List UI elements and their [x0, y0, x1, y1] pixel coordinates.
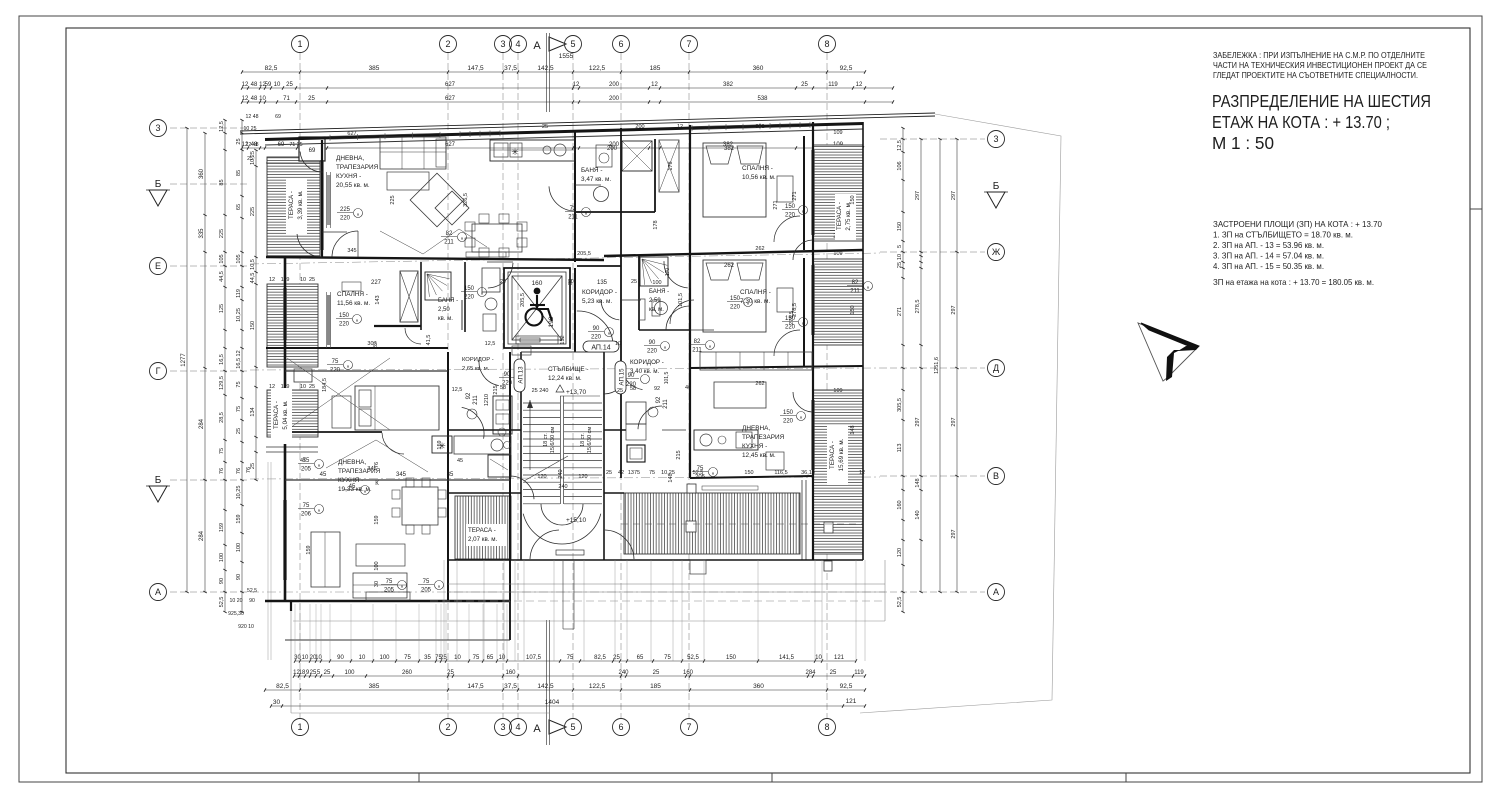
- svg-text:КУХНЯ -: КУХНЯ -: [336, 173, 361, 180]
- svg-text:Г: Г: [156, 366, 161, 376]
- svg-text:16,5 12: 16,5 12: [236, 350, 242, 368]
- svg-text:5: 5: [570, 39, 575, 49]
- svg-text:220: 220: [330, 368, 341, 374]
- svg-text:75: 75: [423, 579, 430, 585]
- svg-text:200: 200: [607, 146, 618, 152]
- svg-text:+15,10: +15,10: [566, 517, 586, 524]
- svg-text:в: в: [347, 363, 349, 368]
- svg-text:211: 211: [473, 395, 479, 405]
- svg-text:75: 75: [236, 406, 242, 412]
- svg-text:120: 120: [897, 548, 903, 557]
- svg-text:25: 25: [653, 670, 660, 676]
- svg-text:200: 200: [609, 96, 620, 102]
- svg-text:АП.14: АП.14: [591, 345, 610, 352]
- svg-text:1555: 1555: [559, 53, 574, 60]
- svg-text:178: 178: [668, 161, 674, 170]
- svg-text:107,5: 107,5: [526, 655, 542, 661]
- svg-text:122,5: 122,5: [589, 683, 606, 690]
- svg-text:2: 2: [445, 722, 450, 732]
- svg-text:Б: Б: [155, 179, 162, 190]
- svg-text:382: 382: [724, 146, 735, 152]
- svg-text:75: 75: [697, 466, 704, 472]
- svg-text:6: 6: [618, 722, 623, 732]
- svg-text:220: 220: [340, 216, 351, 222]
- svg-text:65: 65: [637, 655, 644, 661]
- svg-text:120: 120: [578, 474, 587, 480]
- svg-text:75: 75: [473, 655, 480, 661]
- svg-text:52,5: 52,5: [247, 588, 257, 594]
- svg-text:925,30: 925,30: [228, 611, 244, 617]
- svg-text:КОРИДОР -: КОРИДОР -: [462, 357, 494, 363]
- svg-text:8: 8: [824, 722, 829, 732]
- svg-text:305,5: 305,5: [897, 398, 903, 412]
- svg-text:1210: 1210: [484, 394, 490, 406]
- svg-text:150: 150: [850, 195, 856, 204]
- svg-text:205,5: 205,5: [577, 251, 591, 257]
- svg-text:185: 185: [650, 65, 661, 72]
- svg-text:12: 12: [242, 96, 249, 102]
- svg-text:240: 240: [558, 484, 567, 490]
- svg-text:10 20: 10 20: [230, 598, 243, 604]
- svg-text:150: 150: [783, 410, 794, 416]
- svg-text:ДНЕВНА,: ДНЕВНА,: [338, 459, 366, 466]
- svg-text:25 240: 25 240: [532, 388, 549, 394]
- svg-text:271: 271: [792, 191, 798, 200]
- svg-text:75: 75: [332, 359, 339, 365]
- svg-text:385: 385: [369, 65, 380, 72]
- svg-text:360: 360: [753, 683, 764, 690]
- svg-text:85: 85: [236, 170, 242, 176]
- svg-text:3. ЗП на АП. - 14 = 57.04 кв.: 3. ЗП на АП. - 14 = 57.04 кв. м.: [1213, 252, 1324, 261]
- svg-text:20,55 кв. м.: 20,55 кв. м.: [336, 182, 370, 189]
- svg-text:12: 12: [856, 82, 863, 88]
- svg-text:35: 35: [424, 655, 431, 661]
- svg-text:в: в: [356, 317, 358, 322]
- svg-text:Д: Д: [993, 363, 999, 373]
- svg-text:1277: 1277: [181, 353, 187, 367]
- svg-text:48: 48: [251, 96, 258, 102]
- svg-text:205: 205: [301, 467, 312, 473]
- svg-text:10,25: 10,25: [236, 486, 242, 500]
- svg-text:200: 200: [635, 124, 644, 130]
- svg-text:5: 5: [897, 245, 903, 248]
- svg-text:7,30 кв. м.: 7,30 кв. м.: [740, 298, 770, 305]
- svg-text:10: 10: [259, 96, 266, 102]
- svg-text:БАНЯ -: БАНЯ -: [649, 289, 669, 295]
- svg-text:Е: Е: [155, 261, 161, 271]
- svg-text:10: 10: [359, 655, 366, 661]
- svg-text:25: 25: [236, 138, 242, 144]
- svg-text:25: 25: [236, 428, 242, 434]
- svg-text:65: 65: [487, 655, 494, 661]
- svg-text:227: 227: [371, 280, 382, 286]
- svg-text:159: 159: [374, 515, 380, 524]
- svg-text:152: 152: [560, 335, 566, 344]
- svg-text:15,69 кв. м.: 15,69 кв. м.: [838, 438, 845, 471]
- svg-text:37,5: 37,5: [504, 683, 517, 690]
- svg-text:75: 75: [386, 579, 393, 585]
- svg-text:ТЕРАСА -: ТЕРАСА -: [829, 441, 836, 469]
- svg-text:15,6/30 см: 15,6/30 см: [550, 427, 556, 454]
- svg-text:627: 627: [347, 131, 356, 137]
- svg-text:2,59: 2,59: [649, 298, 661, 304]
- svg-text:76: 76: [219, 468, 225, 474]
- svg-text:3,47 кв. м.: 3,47 кв. м.: [581, 176, 611, 183]
- svg-text:6: 6: [618, 39, 623, 49]
- svg-text:12,5: 12,5: [897, 140, 903, 151]
- svg-text:18 ст.: 18 ст.: [543, 433, 549, 447]
- svg-text:211: 211: [850, 289, 860, 295]
- svg-text:75: 75: [404, 655, 411, 661]
- svg-text:10: 10: [274, 82, 281, 88]
- svg-text:85: 85: [219, 179, 225, 185]
- svg-text:25: 25: [309, 277, 315, 283]
- svg-text:262: 262: [755, 381, 764, 387]
- svg-text:262: 262: [724, 263, 735, 269]
- svg-text:69: 69: [309, 148, 316, 154]
- svg-text:в: в: [712, 470, 714, 475]
- svg-text:220: 220: [591, 335, 602, 341]
- svg-text:52,5: 52,5: [219, 597, 225, 608]
- svg-text:А: А: [533, 40, 541, 52]
- svg-text:82: 82: [446, 231, 453, 237]
- svg-text:147,5: 147,5: [467, 65, 484, 72]
- svg-text:360: 360: [199, 168, 205, 179]
- svg-text:307: 307: [367, 341, 376, 347]
- svg-text:271: 271: [773, 200, 779, 209]
- svg-text:1251,6: 1251,6: [934, 357, 940, 374]
- svg-text:ДНЕВНА,: ДНЕВНА,: [336, 155, 364, 162]
- svg-text:159: 159: [236, 514, 242, 523]
- svg-text:КУХНЯ -: КУХНЯ -: [338, 477, 363, 484]
- svg-text:100: 100: [344, 670, 355, 676]
- svg-text:10: 10: [454, 655, 461, 661]
- svg-text:345: 345: [367, 466, 376, 472]
- svg-text:30: 30: [374, 581, 380, 587]
- svg-text:75: 75: [664, 655, 671, 661]
- svg-text:КОРИДОР -: КОРИДОР -: [582, 289, 617, 296]
- svg-text:ЗАБЕЛЕЖКА : ПРИ ИЗПЪЛНЕНИЕ НА: ЗАБЕЛЕЖКА : ПРИ ИЗПЪЛНЕНИЕ НА С.М.Р. ПО …: [1213, 51, 1425, 60]
- svg-text:25: 25: [617, 388, 623, 394]
- svg-text:25: 25: [324, 670, 331, 676]
- svg-text:125: 125: [219, 304, 225, 313]
- svg-text:10: 10: [302, 655, 309, 661]
- svg-text:538: 538: [757, 96, 768, 102]
- svg-text:106: 106: [897, 161, 903, 170]
- svg-text:СПАЛНЯ -: СПАЛНЯ -: [337, 291, 368, 298]
- svg-text:4: 4: [515, 39, 520, 49]
- svg-text:10: 10: [815, 655, 822, 661]
- svg-text:12 48: 12 48: [246, 142, 259, 148]
- svg-text:48: 48: [251, 82, 258, 88]
- svg-text:12,45 кв. м.: 12,45 кв. м.: [742, 452, 776, 459]
- svg-text:А: А: [993, 587, 999, 597]
- svg-text:ТЕРАСА -: ТЕРАСА -: [288, 191, 295, 219]
- svg-text:160: 160: [505, 670, 516, 676]
- svg-text:2,07 кв. м.: 2,07 кв. м.: [468, 536, 497, 543]
- svg-text:147,5: 147,5: [467, 683, 484, 690]
- svg-text:148: 148: [668, 473, 674, 482]
- svg-text:30: 30: [273, 699, 281, 706]
- svg-text:2. ЗП на АП. - 13 = 53.96 кв.: 2. ЗП на АП. - 13 = 53.96 кв. м.: [1213, 241, 1324, 250]
- svg-text:185: 185: [650, 683, 661, 690]
- svg-text:206: 206: [301, 512, 312, 518]
- svg-text:135: 135: [597, 280, 608, 286]
- svg-text:90: 90: [337, 655, 344, 661]
- svg-text:в: в: [401, 583, 403, 588]
- svg-text:25: 25: [308, 96, 315, 102]
- svg-text:225: 225: [390, 195, 396, 204]
- svg-text:12: 12: [269, 277, 275, 283]
- svg-text:205: 205: [421, 588, 432, 594]
- svg-text:25: 25: [631, 279, 637, 285]
- svg-text:в: в: [481, 290, 483, 295]
- svg-text:3,39 кв. м.: 3,39 кв. м.: [297, 190, 304, 219]
- svg-text:25: 25: [286, 82, 293, 88]
- svg-text:52,5: 52,5: [687, 655, 699, 661]
- svg-text:28,5: 28,5: [219, 412, 225, 423]
- svg-text:297: 297: [915, 417, 921, 426]
- svg-text:101,5: 101,5: [664, 372, 670, 385]
- svg-text:46: 46: [685, 385, 691, 391]
- svg-text:211: 211: [663, 399, 669, 409]
- svg-text:11,56 кв. м.: 11,56 кв. м.: [337, 300, 370, 307]
- svg-text:ТРАПЕЗАРИЯ: ТРАПЕЗАРИЯ: [336, 164, 379, 171]
- svg-text:92,5: 92,5: [840, 683, 853, 690]
- svg-text:в: в: [867, 284, 869, 289]
- svg-text:627: 627: [445, 96, 456, 102]
- svg-text:92: 92: [466, 392, 472, 399]
- svg-text:220: 220: [339, 322, 350, 328]
- svg-text:121: 121: [834, 655, 845, 661]
- svg-text:7: 7: [686, 722, 691, 732]
- svg-text:в: в: [318, 507, 320, 512]
- svg-text:113: 113: [897, 444, 903, 453]
- svg-text:140: 140: [915, 510, 921, 519]
- svg-text:АП.13: АП.13: [518, 366, 525, 384]
- svg-text:БАНЯ -: БАНЯ -: [581, 167, 602, 174]
- svg-text:2,50: 2,50: [438, 307, 450, 313]
- svg-text:3: 3: [993, 134, 998, 144]
- svg-text:1: 1: [297, 39, 302, 49]
- svg-text:184,5: 184,5: [322, 378, 328, 392]
- svg-text:150: 150: [785, 204, 796, 210]
- svg-text:30: 30: [294, 655, 301, 661]
- svg-text:119: 119: [828, 82, 838, 88]
- svg-text:240: 240: [558, 469, 564, 478]
- svg-text:76: 76: [236, 468, 242, 474]
- svg-text:К: К: [375, 481, 379, 487]
- svg-text:10: 10: [499, 655, 506, 661]
- svg-text:82,5: 82,5: [594, 655, 606, 661]
- svg-text:АП.15: АП.15: [619, 368, 626, 386]
- svg-text:в: в: [438, 583, 440, 588]
- svg-text:100: 100: [652, 280, 661, 286]
- svg-text:90: 90: [504, 372, 511, 378]
- svg-text:150: 150: [897, 222, 903, 231]
- svg-text:211: 211: [568, 215, 578, 221]
- svg-text:326,5: 326,5: [463, 193, 469, 207]
- svg-text:в: в: [585, 210, 587, 215]
- svg-text:5: 5: [570, 722, 575, 732]
- svg-text:178: 178: [653, 220, 659, 229]
- svg-text:✳: ✳: [511, 147, 519, 157]
- svg-text:10,25: 10,25: [236, 308, 242, 322]
- svg-text:12 48: 12 48: [246, 114, 259, 120]
- svg-text:10 25: 10 25: [244, 126, 257, 132]
- svg-text:75: 75: [567, 655, 574, 661]
- svg-text:+13,70: +13,70: [566, 389, 586, 396]
- svg-text:3: 3: [500, 39, 505, 49]
- svg-text:1404: 1404: [545, 699, 560, 706]
- svg-text:10: 10: [897, 254, 903, 260]
- svg-text:262: 262: [755, 246, 764, 252]
- svg-text:5,04 кв. м.: 5,04 кв. м.: [282, 400, 289, 429]
- svg-text:205: 205: [695, 475, 706, 481]
- svg-text:109: 109: [833, 388, 842, 394]
- svg-text:92,5: 92,5: [840, 65, 853, 72]
- svg-text:Б: Б: [993, 181, 1000, 192]
- svg-text:119: 119: [854, 670, 864, 676]
- svg-text:297: 297: [951, 529, 957, 538]
- svg-text:4: 4: [515, 722, 520, 732]
- svg-text:284: 284: [199, 530, 205, 541]
- svg-text:25: 25: [606, 470, 612, 476]
- svg-text:71 25: 71 25: [290, 142, 303, 148]
- svg-text:271: 271: [897, 307, 903, 316]
- svg-text:ДНЕВНА,: ДНЕВНА,: [742, 425, 770, 432]
- svg-text:25: 25: [447, 670, 454, 676]
- svg-text:90: 90: [593, 326, 600, 332]
- svg-text:211: 211: [444, 240, 454, 246]
- svg-text:10: 10: [300, 384, 306, 390]
- svg-text:119: 119: [236, 289, 242, 298]
- svg-text:в: в: [709, 343, 711, 348]
- svg-text:25: 25: [247, 156, 253, 162]
- svg-text:220: 220: [464, 295, 475, 301]
- svg-text:ЕТАЖ НА КОТА : + 13.70 ;: ЕТАЖ НА КОТА : + 13.70 ;: [1212, 112, 1390, 132]
- svg-text:20: 20: [568, 279, 574, 285]
- svg-text:41,5: 41,5: [426, 335, 432, 346]
- svg-text:90: 90: [219, 578, 225, 584]
- svg-text:90: 90: [236, 574, 242, 580]
- svg-text:109: 109: [833, 251, 842, 257]
- svg-text:122,5: 122,5: [589, 65, 606, 72]
- svg-text:КУХНЯ -: КУХНЯ -: [742, 443, 767, 450]
- svg-text:ТЕРАСА -: ТЕРАСА -: [273, 401, 280, 429]
- svg-text:225: 225: [219, 229, 225, 238]
- svg-text:382: 382: [755, 124, 764, 130]
- svg-text:18 ст.: 18 ст.: [580, 433, 586, 447]
- svg-text:ТЕРАСА -: ТЕРАСА -: [836, 202, 843, 230]
- svg-text:72: 72: [570, 206, 577, 212]
- svg-text:121: 121: [846, 698, 857, 705]
- svg-text:10: 10: [315, 655, 322, 661]
- svg-text:12,5: 12,5: [452, 387, 463, 393]
- svg-text:25: 25: [830, 670, 837, 676]
- svg-text:150: 150: [464, 286, 475, 292]
- svg-text:142,5: 142,5: [537, 683, 554, 690]
- svg-text:БАНЯ -: БАНЯ -: [438, 298, 458, 304]
- svg-text:284: 284: [199, 418, 205, 429]
- svg-text:Ж: Ж: [992, 247, 1001, 257]
- svg-text:37,5: 37,5: [504, 65, 517, 72]
- svg-text:150: 150: [339, 313, 350, 319]
- svg-text:75: 75: [303, 503, 310, 509]
- svg-text:в: в: [357, 211, 359, 216]
- svg-text:159: 159: [306, 545, 312, 554]
- svg-text:225: 225: [340, 207, 351, 213]
- svg-text:220: 220: [502, 381, 513, 387]
- svg-text:ЗАСТРОЕНИ ПЛОЩИ (ЗП) НА КОТА :: ЗАСТРОЕНИ ПЛОЩИ (ЗП) НА КОТА : + 13.70: [1213, 220, 1382, 229]
- svg-text:205: 205: [384, 588, 395, 594]
- svg-text:215: 215: [493, 385, 499, 394]
- svg-text:75: 75: [236, 381, 242, 387]
- svg-text:142,5: 142,5: [537, 65, 554, 72]
- svg-text:45: 45: [300, 458, 306, 464]
- svg-text:159: 159: [437, 440, 443, 449]
- svg-text:1. ЗП на СТЪЛБИЩЕТО = 18.70 кв: 1. ЗП на СТЪЛБИЩЕТО = 18.70 кв. м.: [1213, 231, 1353, 240]
- svg-text:160: 160: [683, 670, 694, 676]
- svg-text:1375: 1375: [628, 470, 640, 476]
- svg-text:М 1 : 50: М 1 : 50: [1212, 133, 1274, 153]
- svg-text:12: 12: [573, 82, 580, 88]
- svg-text:7: 7: [686, 39, 691, 49]
- svg-text:1: 1: [297, 722, 302, 732]
- svg-text:в: в: [608, 330, 610, 335]
- svg-text:2,65 кв. м.: 2,65 кв. м.: [462, 366, 490, 372]
- svg-text:25: 25: [801, 82, 808, 88]
- svg-text:100: 100: [236, 543, 242, 552]
- svg-text:59: 59: [265, 82, 272, 88]
- svg-text:205,5: 205,5: [520, 293, 526, 307]
- svg-text:10: 10: [300, 277, 306, 283]
- svg-text:100: 100: [374, 561, 380, 570]
- svg-text:225: 225: [250, 207, 256, 216]
- svg-text:СПАЛНЯ -: СПАЛНЯ -: [742, 165, 773, 172]
- svg-text:12: 12: [677, 124, 683, 130]
- svg-text:360: 360: [753, 65, 764, 72]
- svg-text:82: 82: [694, 339, 701, 345]
- svg-text:71: 71: [283, 96, 290, 102]
- svg-text:297: 297: [915, 191, 921, 200]
- svg-text:в: в: [800, 414, 802, 419]
- svg-text:25: 25: [309, 384, 315, 390]
- svg-text:82,5: 82,5: [265, 65, 278, 72]
- svg-text:278,5: 278,5: [915, 300, 921, 314]
- svg-text:52,5: 52,5: [897, 597, 903, 608]
- svg-text:12: 12: [859, 470, 865, 476]
- svg-text:260: 260: [402, 670, 413, 676]
- svg-text:ЧАСТИ НА ТЕХНИЧЕСКИЯ ИНВЕСТИЦИ: ЧАСТИ НА ТЕХНИЧЕСКИЯ ИНВЕСТИЦИОНЕН ПРОЕК…: [1213, 61, 1427, 70]
- svg-text:160: 160: [897, 500, 903, 509]
- svg-text:284: 284: [805, 670, 816, 676]
- svg-text:150: 150: [744, 470, 753, 476]
- svg-text:335: 335: [199, 228, 205, 239]
- svg-text:382: 382: [723, 82, 734, 88]
- svg-text:148: 148: [850, 425, 856, 434]
- svg-text:СПАЛНЯ -: СПАЛНЯ -: [740, 289, 771, 296]
- svg-text:141,5: 141,5: [779, 655, 795, 661]
- svg-text:220: 220: [730, 305, 741, 311]
- svg-text:105: 105: [219, 254, 225, 263]
- svg-text:25: 25: [542, 124, 548, 130]
- svg-text:920 10: 920 10: [238, 624, 254, 630]
- svg-text:150: 150: [726, 655, 737, 661]
- svg-text:12,24 кв. м.: 12,24 кв. м.: [548, 375, 582, 382]
- svg-text:220: 220: [785, 213, 796, 219]
- svg-text:345: 345: [347, 248, 356, 254]
